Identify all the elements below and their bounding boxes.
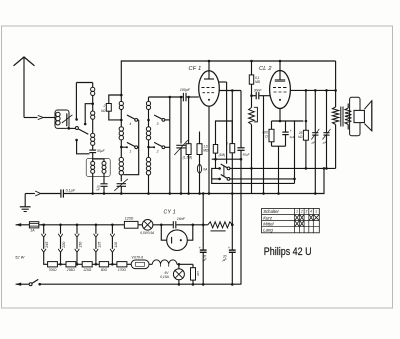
speaker cone [364, 101, 371, 131]
svg-text:50µF: 50µF [243, 153, 250, 157]
wire var cap column [180, 96, 183, 144]
wire C5 down [240, 150, 242, 284]
capacitor 10nF [96, 184, 107, 192]
tap join 245 [44, 262, 48, 265]
svg-text:1: 1 [129, 149, 131, 153]
CF1 pin right b [219, 89, 241, 92]
wire T1 left to bus [91, 173, 94, 194]
grid wire [149, 96, 184, 98]
voltage tap 125V [94, 224, 102, 262]
wire C4 to bus [180, 148, 183, 195]
resistor R2 [183, 144, 193, 160]
anode rail [290, 89, 337, 92]
svg-text:+: + [290, 129, 292, 133]
voltage tap 220V [58, 224, 66, 262]
capacitor 0.1uF [41, 188, 76, 197]
variable capacitor C4 [174, 140, 188, 155]
wire R1 bottom [109, 111, 122, 120]
antenna [14, 57, 35, 118]
svg-text:Mittel: Mittel [263, 221, 274, 226]
wire R2 column [187, 96, 190, 144]
wire switch common B [124, 120, 139, 175]
svg-text:16nF: 16nF [177, 217, 186, 221]
capacitor C10 20uF [222, 246, 236, 262]
svg-text:CY 1: CY 1 [164, 209, 176, 215]
wire to chokes [149, 263, 152, 265]
barretter VX70-6 [131, 256, 149, 269]
switch contact 1 [121, 142, 137, 153]
transformer T2 secondary [345, 104, 351, 130]
svg-text:Lang: Lang [263, 228, 273, 233]
svg-text:0,15A: 0,15A [160, 275, 169, 279]
switch bracket [212, 167, 295, 183]
node CL2 rail [279, 60, 282, 63]
CY1 pin right [187, 225, 193, 240]
svg-text:6,5V/0,5A: 6,5V/0,5A [140, 231, 154, 235]
tap join others [59, 262, 113, 266]
tube CF1 [189, 66, 220, 106]
resistor R10 [191, 264, 201, 280]
capacitor C6 cathode [282, 121, 295, 139]
CF1 cathode [208, 99, 211, 195]
wire coil to switch [68, 127, 76, 130]
tube CL2 [259, 66, 290, 109]
svg-text:CF 1: CF 1 [189, 66, 202, 72]
CY1 pin left [161, 225, 166, 240]
cathode join [272, 135, 286, 195]
voltage tap 150V [75, 224, 83, 262]
wire C8 down [325, 135, 328, 170]
coil L3a [119, 95, 123, 121]
capacitor 30nF [252, 92, 270, 99]
wire 16nF right [176, 224, 208, 227]
svg-text:245: 245 [45, 241, 49, 249]
svg-text:700Ω: 700Ω [48, 268, 57, 272]
wire lamp2 to line [178, 280, 181, 286]
svg-text:220: 220 [62, 242, 66, 249]
trimmer capacitor C1 [62, 113, 73, 126]
capacitor C5 [237, 91, 249, 157]
IF transformer T1 [86, 159, 110, 177]
grid leak wire [262, 96, 265, 195]
svg-text:30nF: 30nF [254, 88, 263, 92]
svg-text:4: 4 [129, 122, 131, 126]
svg-text:1: 1 [296, 210, 298, 214]
resistor R4 [225, 91, 235, 153]
bus lead [25, 191, 40, 196]
wire F2 to bus [198, 173, 201, 195]
resistor R11 120 [124, 216, 138, 228]
CL2 cathode split [272, 120, 296, 123]
wire R11 to lamp [138, 224, 142, 226]
svg-text:Schalter: Schalter [263, 209, 279, 214]
dropper resistors row [48, 262, 132, 273]
variable capacitor C3 [114, 179, 128, 191]
CF1 grid dashes [202, 88, 215, 93]
wire 10nF to bus [103, 186, 106, 195]
wire AF line [230, 167, 336, 170]
svg-text:125Ω: 125Ω [83, 268, 92, 272]
svg-text:kΩ: kΩ [101, 109, 106, 113]
svg-text:50µF: 50µF [97, 149, 106, 153]
svg-text:80Ω: 80Ω [101, 268, 108, 272]
svg-text:3: 3 [157, 122, 159, 126]
capacitor C7 [311, 90, 319, 144]
fuse F1 1A [22, 222, 44, 233]
resistor R8 400 [262, 121, 274, 142]
svg-text:0,1µF: 0,1µF [66, 188, 76, 192]
CY1 electrodes [172, 237, 182, 244]
svg-text:52 W: 52 W [15, 255, 24, 259]
wire C3 to bus [120, 186, 123, 195]
svg-text:MΩ: MΩ [255, 80, 261, 84]
resistor R3 [197, 144, 209, 155]
voltage tap 245V [41, 224, 49, 262]
antenna coil L1 [55, 110, 69, 128]
wire chokes to right [177, 263, 193, 266]
switch position table [262, 208, 320, 232]
wire cap to coils [93, 153, 104, 162]
node CF1 anode rail [208, 60, 211, 63]
switch contact 5 upper [221, 164, 230, 170]
wire R2 to bus [187, 155, 190, 195]
svg-text:1A: 1A [30, 229, 35, 233]
svg-text:VX70-6: VX70-6 [131, 256, 143, 260]
resistor R5 [213, 145, 225, 158]
wire C9 down [202, 252, 205, 285]
svg-text:(1M): (1M) [219, 153, 226, 157]
capacitor C8 [323, 90, 331, 144]
wire antenna feed [24, 115, 55, 119]
svg-text:Philips 42 U: Philips 42 U [264, 246, 312, 258]
resistor R1 2k [101, 104, 111, 114]
coil L3c [119, 147, 123, 181]
wire R4 to bus [231, 153, 234, 195]
svg-text:Kurz: Kurz [263, 215, 273, 220]
wire switch common C [165, 96, 171, 195]
svg-text:kΩ: kΩ [298, 135, 303, 139]
node grid [250, 84, 262, 97]
grid wire 2 [186, 96, 199, 98]
capacitor C9 20uF [199, 192, 208, 262]
wire R3 column [199, 132, 201, 144]
wire R10 to line [192, 280, 195, 286]
ground bus [64, 168, 324, 193]
resistor R6 0.1M [249, 61, 260, 84]
CF1 anode [204, 61, 214, 79]
tube CY1 [164, 209, 188, 250]
transformer T2 core [341, 107, 343, 127]
coil L2b [91, 104, 95, 134]
wire 76-92 top [76, 82, 92, 84]
node R6 rail [250, 60, 253, 63]
lamp LA2 6V [160, 264, 184, 280]
node below switch [75, 139, 78, 142]
switch contact 6 lower [221, 175, 230, 181]
wire T1 right down [103, 173, 105, 183]
svg-text:+: + [199, 246, 201, 250]
wire R9 down [305, 140, 307, 168]
CL2 cathode [279, 99, 281, 121]
capacitor 100pF [180, 88, 191, 101]
wire R5 down [212, 153, 243, 168]
wire anode feed down [226, 82, 228, 164]
switch contact 4 [127, 115, 138, 126]
wire lamp1 right [153, 224, 173, 227]
switch contact stub [84, 104, 93, 126]
resistor R12 zigzag [208, 222, 234, 231]
mains switch [16, 279, 41, 286]
coil L3b [119, 120, 123, 148]
CL2 anode [275, 61, 285, 82]
wire R1 top [109, 95, 122, 104]
capacitor 16nF [173, 217, 185, 228]
choke bumps [152, 260, 177, 267]
mains line [41, 224, 124, 226]
svg-text:120: 120 [196, 271, 200, 276]
resistor R7 zigzag [249, 96, 258, 194]
CF1 pin right a [219, 81, 227, 83]
transformer T2 primary [332, 61, 338, 168]
switch S5 [75, 127, 88, 135]
svg-text:nF: nF [96, 188, 100, 192]
svg-text:(1,5M): (1,5M) [183, 156, 193, 160]
mains lead L [16, 223, 22, 226]
label 52W [15, 255, 24, 259]
svg-text:MΩ: MΩ [203, 148, 209, 152]
voltage tap 110V [110, 224, 118, 262]
switch contact 2 [149, 142, 165, 153]
bottom line [40, 283, 241, 285]
svg-text:CL 2: CL 2 [259, 66, 272, 72]
switch contact 3 [154, 115, 165, 126]
speaker magnet [354, 110, 364, 122]
coil L2c [91, 133, 95, 150]
speaker bracket [350, 97, 360, 135]
svg-text:2: 2 [156, 149, 159, 153]
CL2 grid dashes [273, 88, 287, 93]
coil L2a [91, 83, 95, 105]
svg-text:2: 2 [225, 142, 228, 146]
wire switch down [77, 140, 90, 154]
svg-text:3: 3 [306, 210, 308, 214]
svg-text:255Ω: 255Ω [66, 268, 76, 272]
fuse F2 [197, 155, 208, 174]
svg-text:125: 125 [97, 241, 101, 248]
wire C10 column [231, 194, 234, 286]
svg-text:170Ω: 170Ω [118, 268, 127, 272]
svg-text:2: 2 [300, 210, 303, 214]
ground symbol [20, 194, 31, 212]
svg-text:4: 4 [310, 210, 312, 214]
capacitor 50uF [89, 149, 105, 153]
svg-text:2: 2 [103, 104, 106, 108]
lamp LA1 6.5V [140, 220, 154, 236]
svg-text:110: 110 [114, 242, 118, 248]
coil L4b [146, 120, 150, 148]
coil L4a [146, 97, 150, 121]
resistor R9 25k [298, 90, 309, 140]
title Philips 42 U [264, 246, 312, 258]
wire switch riser [75, 83, 78, 121]
coil L4c [146, 147, 150, 195]
switch gang link [223, 166, 225, 177]
wire lower switch line [230, 120, 307, 184]
detector bridge wire [216, 121, 233, 145]
svg-text:150: 150 [78, 242, 82, 248]
HT rail [120, 61, 336, 96]
svg-text:120Ω: 120Ω [125, 216, 134, 220]
svg-text:100pF: 100pF [180, 88, 191, 92]
svg-text:+: + [228, 246, 230, 250]
wire C7 to bus [314, 135, 317, 195]
